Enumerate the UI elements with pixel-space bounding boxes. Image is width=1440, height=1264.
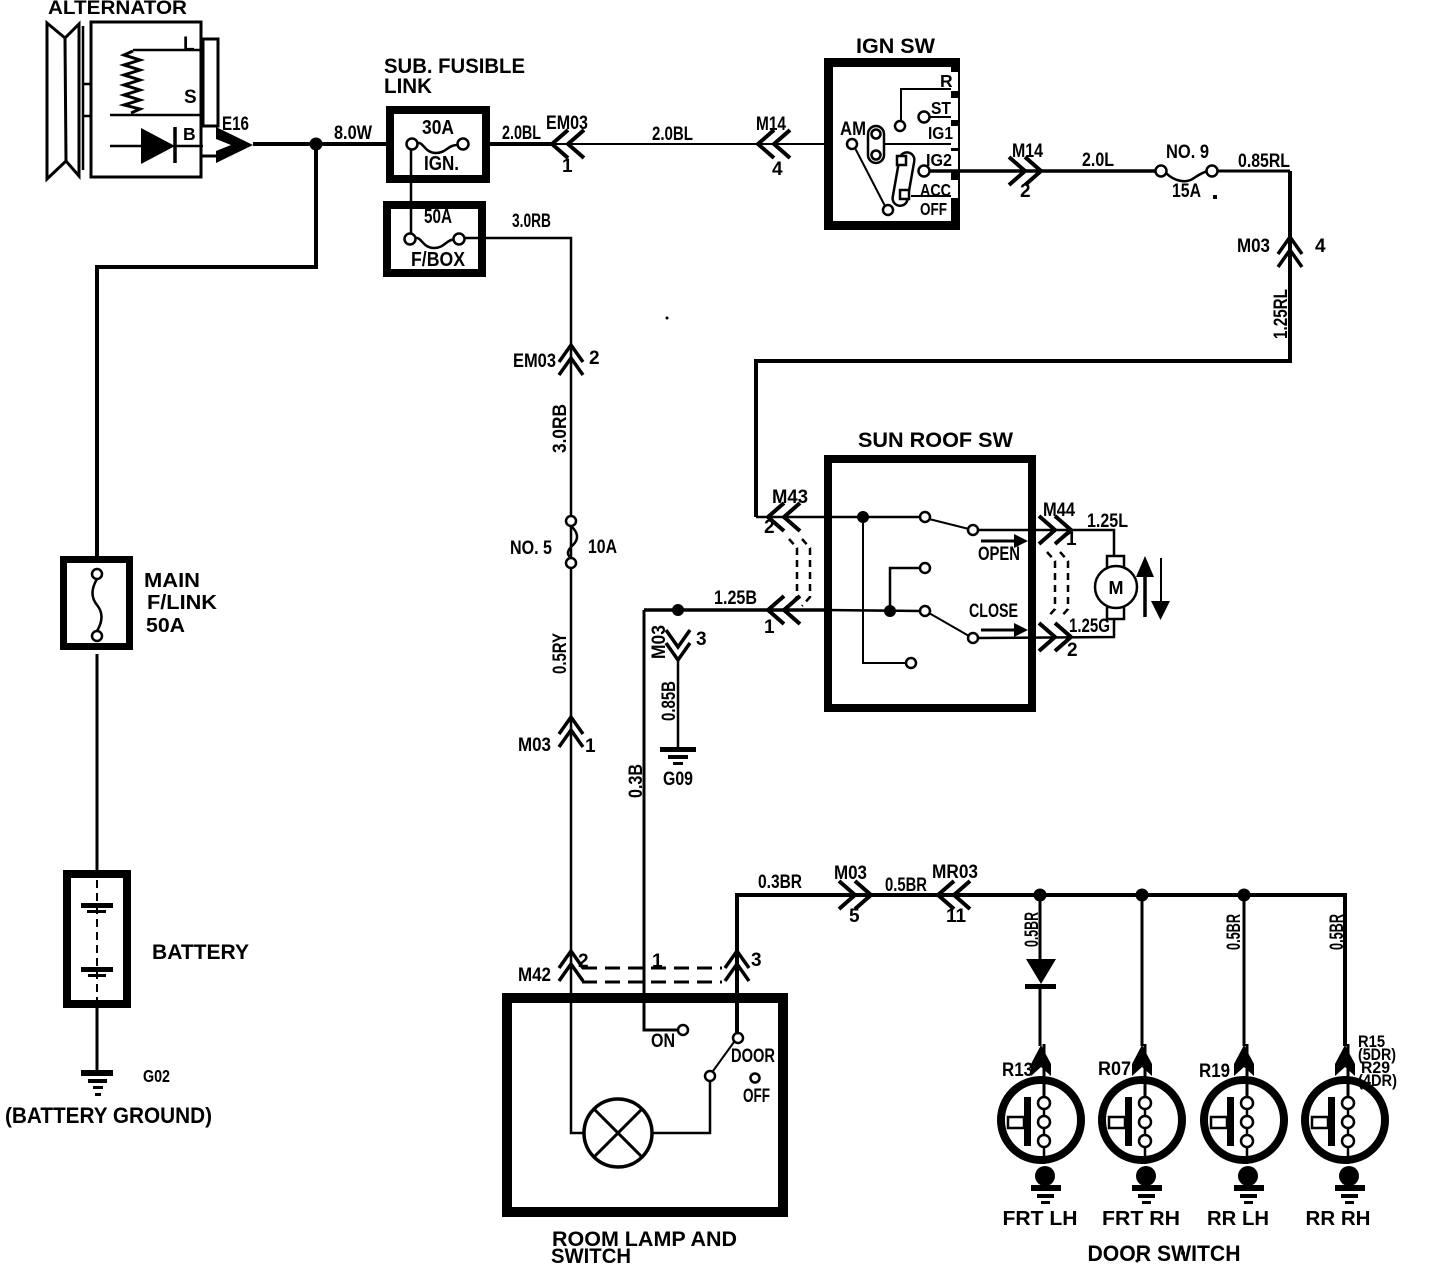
svg-text:M03: M03 [1237, 236, 1270, 257]
svg-text:2.0BL: 2.0BL [502, 123, 541, 144]
svg-text:(BATTERY GROUND): (BATTERY GROUND) [5, 1103, 212, 1128]
svg-text:2.0BL: 2.0BL [652, 124, 693, 145]
svg-text:0.3B: 0.3B [626, 764, 647, 798]
svg-text:L: L [183, 34, 195, 55]
svg-text:30A: 30A [422, 117, 454, 139]
svg-text:RR LH: RR LH [1207, 1208, 1269, 1230]
svg-text:1.25B: 1.25B [714, 588, 757, 609]
svg-text:S: S [184, 87, 197, 108]
svg-text:50A: 50A [424, 206, 452, 228]
svg-text:SUN ROOF SW: SUN ROOF SW [858, 429, 1013, 452]
svg-text:1: 1 [1066, 529, 1077, 550]
svg-text:G09: G09 [663, 769, 693, 790]
svg-text:0.5BR: 0.5BR [885, 875, 927, 896]
svg-text:RR RH: RR RH [1306, 1208, 1371, 1230]
svg-text:OPEN: OPEN [978, 544, 1020, 565]
svg-text:M03: M03 [649, 625, 670, 659]
svg-text:1.25G: 1.25G [1069, 616, 1110, 637]
svg-text:1: 1 [562, 156, 573, 177]
svg-text:1: 1 [764, 617, 775, 638]
svg-text:FRT RH: FRT RH [1102, 1208, 1180, 1230]
svg-text:4: 4 [772, 159, 783, 180]
svg-text:8.0W: 8.0W [334, 123, 372, 144]
svg-text:F/LINK: F/LINK [147, 592, 218, 614]
svg-text:1.25L: 1.25L [1087, 511, 1128, 532]
svg-text:ALTERNATOR: ALTERNATOR [48, 0, 187, 19]
svg-text:M42: M42 [518, 965, 551, 986]
svg-text:ST: ST [931, 98, 951, 118]
svg-text:2: 2 [764, 517, 775, 538]
svg-text:3: 3 [751, 950, 762, 971]
svg-text:4: 4 [1315, 236, 1326, 257]
svg-text:M03: M03 [518, 735, 551, 756]
svg-text:E16: E16 [222, 114, 249, 135]
svg-text:IGN SW: IGN SW [856, 35, 935, 58]
svg-text:F/BOX: F/BOX [411, 249, 466, 271]
svg-text:0.5BR: 0.5BR [1022, 912, 1043, 947]
svg-text:M03: M03 [834, 863, 867, 884]
svg-text:(4DR): (4DR) [1358, 1071, 1397, 1090]
svg-text:DOOR: DOOR [731, 1046, 775, 1067]
svg-text:3: 3 [696, 629, 707, 650]
svg-text:2.0L: 2.0L [1082, 150, 1114, 171]
svg-text:FRT LH: FRT LH [1003, 1208, 1078, 1230]
svg-text:NO. 5: NO. 5 [510, 538, 552, 559]
svg-text:M14: M14 [1012, 141, 1043, 162]
svg-text:EM03: EM03 [546, 113, 588, 134]
svg-text:3.0RB: 3.0RB [550, 404, 571, 453]
svg-text:0.5BR: 0.5BR [1327, 914, 1348, 950]
svg-text:R19: R19 [1199, 1061, 1230, 1082]
svg-text:ON: ON [651, 1031, 675, 1052]
svg-text:M43: M43 [772, 487, 808, 508]
svg-text:EM03: EM03 [513, 351, 556, 372]
svg-text:3.0RB: 3.0RB [512, 211, 551, 232]
svg-text:OFF: OFF [743, 1086, 770, 1107]
svg-text:MR03: MR03 [932, 862, 978, 883]
svg-text:15A: 15A [1172, 181, 1201, 202]
svg-text:LINK: LINK [384, 75, 432, 98]
svg-text:11: 11 [946, 906, 967, 927]
svg-text:B: B [183, 124, 196, 144]
svg-text:IGN.: IGN. [424, 153, 459, 175]
svg-text:SWITCH: SWITCH [551, 1245, 631, 1264]
svg-text:CLOSE: CLOSE [969, 601, 1018, 622]
svg-text:5: 5 [849, 906, 860, 927]
svg-text:0.5RY: 0.5RY [550, 633, 571, 674]
svg-text:10A: 10A [588, 537, 617, 558]
svg-text:IG2: IG2 [926, 150, 952, 170]
svg-text:2: 2 [589, 348, 600, 369]
svg-text:R07: R07 [1098, 1059, 1131, 1080]
svg-text:2: 2 [1067, 640, 1078, 661]
svg-text:M14: M14 [756, 114, 786, 135]
svg-text:0.85RL: 0.85RL [1238, 151, 1290, 172]
svg-text:0.3BR: 0.3BR [758, 872, 802, 893]
svg-text:M: M [1109, 578, 1124, 598]
svg-text:50A: 50A [146, 615, 185, 637]
svg-text:2: 2 [1020, 181, 1031, 202]
svg-text:G02: G02 [143, 1066, 170, 1086]
svg-text:IG1: IG1 [928, 123, 953, 143]
svg-text:AM: AM [840, 119, 866, 140]
svg-text:BATTERY: BATTERY [152, 941, 249, 964]
svg-text:1.25RL: 1.25RL [1271, 289, 1292, 339]
svg-text:0.5BR: 0.5BR [1224, 914, 1245, 950]
svg-text:R13: R13 [1002, 1060, 1033, 1081]
svg-text:1: 1 [585, 736, 596, 757]
svg-text:DOOR SWITCH: DOOR SWITCH [1088, 1241, 1241, 1264]
svg-text:NO. 9: NO. 9 [1166, 142, 1209, 163]
svg-text:MAIN: MAIN [144, 570, 200, 592]
svg-text:OFF: OFF [920, 199, 947, 219]
svg-text:0.85B: 0.85B [659, 681, 680, 721]
